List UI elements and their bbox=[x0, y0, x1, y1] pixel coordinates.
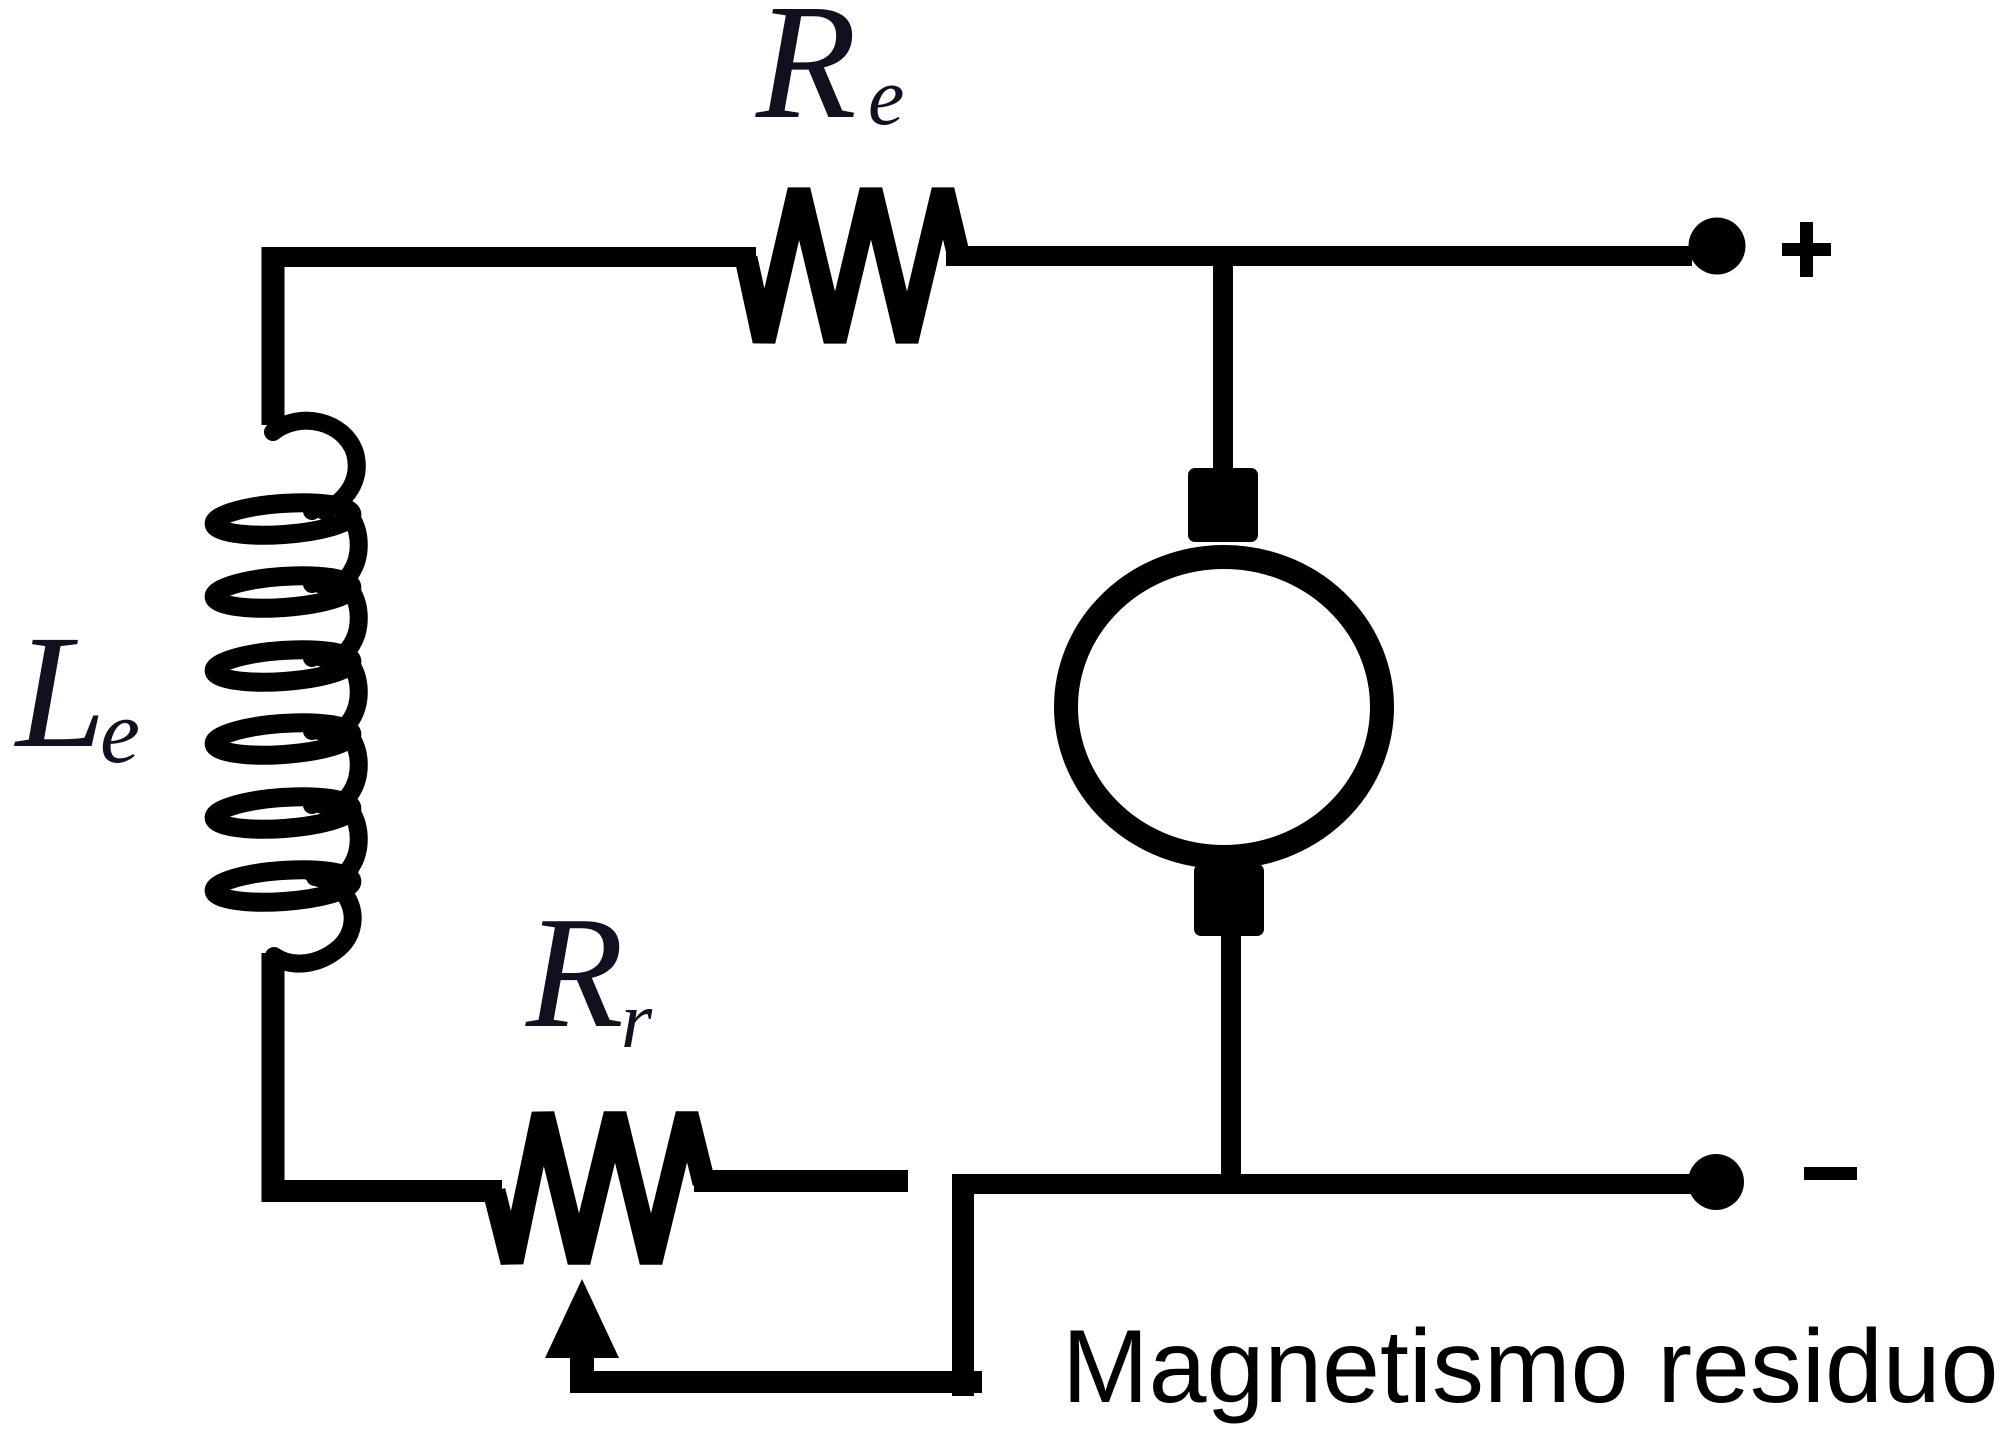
plus sign bbox=[1782, 243, 1831, 256]
svg-text:L: L bbox=[14, 603, 106, 782]
resistor Re zigzag bbox=[746, 190, 959, 341]
wire left vertical upper bbox=[262, 247, 285, 425]
motor brush top square bbox=[1188, 468, 1258, 542]
svg-text:R: R bbox=[525, 883, 624, 1061]
svg-text:e: e bbox=[100, 683, 140, 782]
wiper arrow shaft bbox=[570, 1355, 594, 1393]
svg-text:r: r bbox=[621, 977, 653, 1065]
wire left vertical lower bbox=[262, 953, 285, 1202]
resistor Rr zigzag bbox=[494, 1114, 704, 1262]
wire bottom horizontal to minus terminal bbox=[963, 1174, 1691, 1194]
wire motor top vertical bbox=[1213, 257, 1233, 470]
motor M1 armature circle bbox=[1066, 557, 1382, 857]
minus sign bbox=[1804, 1167, 1857, 1180]
svg-text:R: R bbox=[755, 0, 857, 153]
wire wiper bottom horizontal bbox=[572, 1371, 982, 1393]
wiper arrowhead bbox=[545, 1279, 619, 1358]
wire bottom-left horizontal bbox=[262, 1180, 502, 1202]
wire top-left horizontal bbox=[262, 247, 756, 267]
svg-text:Magnetismo residuo: Magnetismo residuo bbox=[1062, 1309, 1998, 1425]
motor brush bottom square bbox=[1194, 864, 1264, 936]
node plus terminal dot bbox=[1689, 218, 1746, 275]
wire Rr right lead bbox=[694, 1170, 908, 1192]
inductor Le coil bbox=[273, 421, 359, 964]
wire top horizontal to plus terminal bbox=[946, 246, 1692, 266]
wire wiper step vertical bbox=[952, 1174, 974, 1396]
node minus terminal dot bbox=[1688, 1154, 1744, 1210]
svg-text:e: e bbox=[868, 51, 904, 142]
wire motor bottom vertical bbox=[1221, 934, 1241, 1184]
